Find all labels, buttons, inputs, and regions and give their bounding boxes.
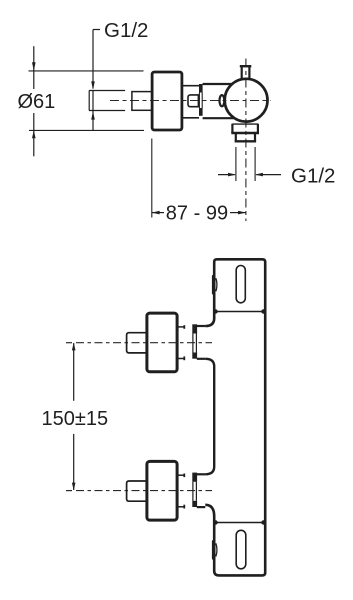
svg-text:Ø61: Ø61 — [18, 91, 56, 113]
svg-text:G1/2: G1/2 — [291, 165, 335, 188]
svg-text:150±15: 150±15 — [42, 408, 109, 430]
svg-text:87 - 99: 87 - 99 — [166, 203, 228, 225]
svg-text:G1/2: G1/2 — [104, 19, 148, 42]
